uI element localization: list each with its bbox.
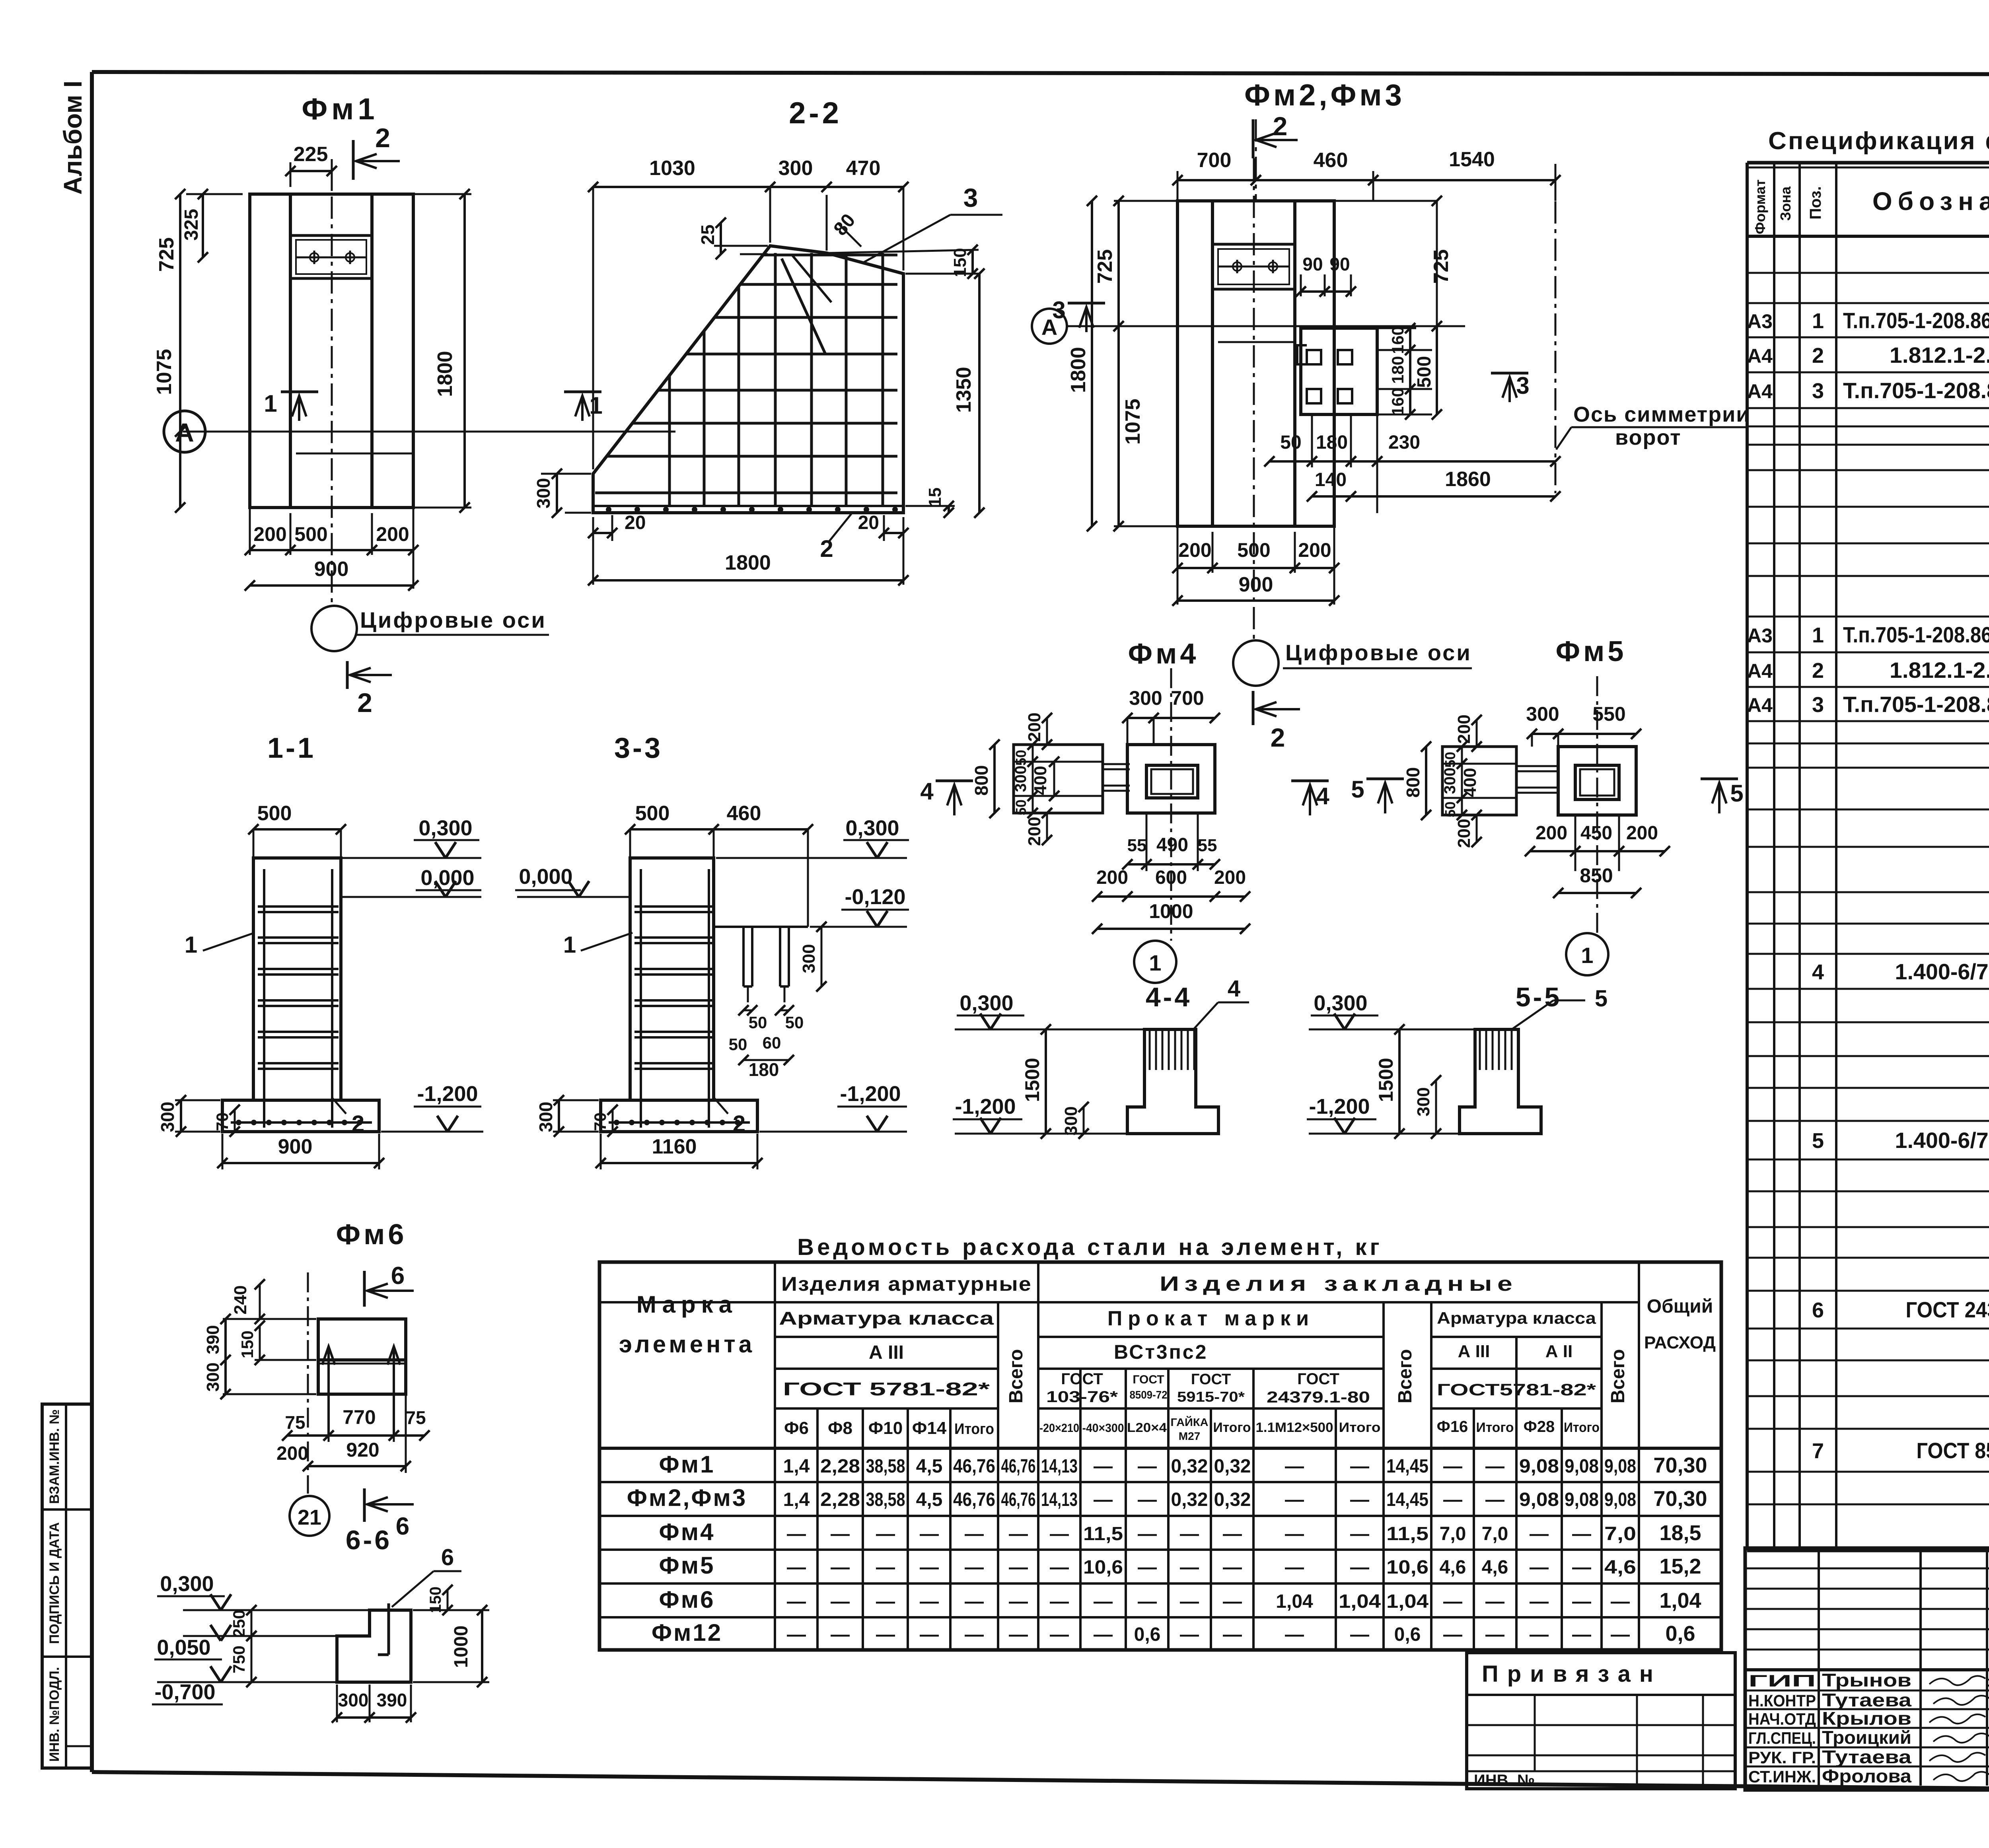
- svg-text:—: —: [1611, 1591, 1630, 1612]
- svg-text:—: —: [920, 1523, 939, 1545]
- svg-text:ГОСТ: ГОСТ: [1061, 1370, 1103, 1388]
- svg-text:ворот: ворот: [1615, 426, 1682, 449]
- svg-text:300: 300: [157, 1102, 178, 1132]
- svg-text:ИНВ. №: ИНВ. №: [1474, 1772, 1535, 1789]
- svg-text:—: —: [1138, 1489, 1157, 1510]
- svg-text:ПОДПИСЬ И ДАТА: ПОДПИСЬ И ДАТА: [47, 1522, 62, 1644]
- svg-text:—: —: [787, 1557, 806, 1578]
- svg-text:Н.КОНТР: Н.КОНТР: [1748, 1691, 1816, 1710]
- svg-text:0,32: 0,32: [1171, 1489, 1208, 1510]
- svg-text:300: 300: [535, 1102, 556, 1132]
- svg-text:9,08: 9,08: [1565, 1489, 1599, 1510]
- svg-text:—: —: [1443, 1624, 1462, 1645]
- svg-text:11,5: 11,5: [1386, 1523, 1428, 1545]
- svg-text:Арматура класса: Арматура класса: [1437, 1309, 1596, 1327]
- svg-text:46,76: 46,76: [953, 1489, 995, 1510]
- svg-text:200: 200: [1178, 539, 1211, 561]
- svg-text:9,08: 9,08: [1519, 1489, 1559, 1510]
- svg-text:Всего: Всего: [1006, 1349, 1027, 1404]
- svg-text:15: 15: [925, 488, 945, 507]
- svg-text:75: 75: [285, 1412, 305, 1433]
- svg-text:—: —: [1611, 1624, 1630, 1645]
- svg-text:180: 180: [749, 1059, 779, 1080]
- svg-text:СТ.ИНЖ.: СТ.ИНЖ.: [1748, 1767, 1816, 1786]
- svg-text:300: 300: [778, 157, 813, 180]
- svg-text:15,2: 15,2: [1659, 1554, 1701, 1578]
- svg-text:300: 300: [1526, 703, 1559, 725]
- svg-text:50: 50: [729, 1035, 747, 1054]
- svg-text:60: 60: [763, 1033, 781, 1052]
- svg-text:325: 325: [181, 209, 202, 241]
- svg-text:725: 725: [1094, 249, 1117, 284]
- svg-text:25: 25: [697, 224, 718, 245]
- svg-text:4,6: 4,6: [1440, 1557, 1466, 1578]
- svg-text:450: 450: [1580, 823, 1612, 844]
- svg-text:50: 50: [1013, 800, 1029, 815]
- svg-text:4: 4: [1228, 976, 1240, 1002]
- svg-text:—: —: [831, 1591, 850, 1612]
- svg-text:—: —: [965, 1523, 984, 1545]
- svg-text:Итого: Итого: [954, 1421, 994, 1438]
- svg-text:1: 1: [1149, 950, 1161, 975]
- svg-text:3.Х.86: 3.Х.86: [1987, 1675, 1989, 1690]
- svg-text:—: —: [1180, 1523, 1199, 1545]
- svg-text:160: 160: [1388, 388, 1407, 416]
- svg-text:ВЗАМ.ИНВ. №: ВЗАМ.ИНВ. №: [47, 1409, 62, 1504]
- svg-text:0,050: 0,050: [157, 1636, 210, 1659]
- svg-text:—: —: [1223, 1624, 1242, 1645]
- svg-text:—: —: [1138, 1557, 1157, 1578]
- svg-text:Изделия арматурные: Изделия арматурные: [781, 1273, 1032, 1295]
- svg-text:1.400-6/76, вып.1: 1.400-6/76, вып.1: [1895, 1128, 1989, 1153]
- svg-text:2: 2: [357, 688, 372, 718]
- svg-text:1350: 1350: [952, 367, 975, 413]
- svg-text:Крылов: Крылов: [1822, 1708, 1911, 1729]
- svg-text:6: 6: [396, 1513, 409, 1540]
- svg-text:2: 2: [1812, 659, 1824, 683]
- svg-text:46,76: 46,76: [1001, 1489, 1036, 1510]
- svg-text:Ведомость расхода стали на эле: Ведомость расхода стали на элемент, кг: [797, 1234, 1382, 1260]
- svg-text:—: —: [1572, 1624, 1591, 1645]
- svg-text:Т.п.705-1-208.86 КЖИ.01.00.СБ: Т.п.705-1-208.86 КЖИ.01.00.СБ: [1843, 308, 1989, 333]
- svg-text:—: —: [1485, 1591, 1504, 1612]
- svg-text:1,04: 1,04: [1659, 1589, 1701, 1613]
- svg-text:А4: А4: [1747, 345, 1773, 367]
- svg-text:2-2: 2-2: [789, 96, 842, 130]
- svg-text:Фм6: Фм6: [336, 1219, 407, 1251]
- svg-text:460: 460: [1314, 149, 1348, 172]
- svg-text:А3: А3: [1747, 310, 1773, 333]
- svg-text:46,76: 46,76: [1001, 1456, 1036, 1477]
- svg-text:1-1: 1-1: [267, 732, 316, 764]
- svg-text:—: —: [1223, 1591, 1242, 1612]
- svg-text:Тутаева: Тутаева: [1822, 1690, 1912, 1710]
- svg-text:0,300: 0,300: [418, 816, 472, 840]
- svg-text:-20×210: -20×210: [1039, 1422, 1079, 1435]
- svg-text:200: 200: [1025, 712, 1044, 741]
- svg-text:1,4: 1,4: [783, 1489, 810, 1510]
- svg-text:230: 230: [1388, 432, 1420, 453]
- svg-text:1.812.1-2.1-120-08: 1.812.1-2.1-120-08: [1890, 657, 1989, 683]
- svg-text:А4: А4: [1747, 660, 1773, 682]
- svg-text:103-76*: 103-76*: [1046, 1388, 1118, 1406]
- svg-text:600: 600: [1155, 867, 1187, 888]
- svg-text:770: 770: [343, 1406, 376, 1428]
- svg-text:46,76: 46,76: [953, 1456, 995, 1477]
- svg-text:—: —: [1009, 1624, 1028, 1645]
- svg-text:4: 4: [1812, 960, 1824, 984]
- svg-text:180: 180: [1388, 356, 1407, 384]
- svg-text:Цифровые оси: Цифровые оси: [360, 607, 547, 632]
- svg-text:24379.1-80: 24379.1-80: [1267, 1389, 1370, 1406]
- svg-text:3: 3: [1516, 372, 1529, 399]
- svg-text:390: 390: [377, 1690, 407, 1710]
- svg-text:2: 2: [820, 535, 833, 562]
- svg-text:300: 300: [1012, 766, 1030, 792]
- svg-text:5: 5: [1351, 776, 1364, 803]
- svg-text:7,0: 7,0: [1482, 1523, 1508, 1545]
- svg-text:Итого: Итого: [1339, 1420, 1381, 1435]
- svg-text:90: 90: [1329, 254, 1350, 274]
- svg-text:11,5: 11,5: [1083, 1523, 1123, 1545]
- svg-text:700: 700: [1171, 687, 1204, 709]
- svg-text:—: —: [1572, 1557, 1591, 1578]
- svg-text:-1,200: -1,200: [417, 1082, 478, 1106]
- svg-text:5-5: 5-5: [1516, 982, 1562, 1012]
- svg-text:2: 2: [1812, 344, 1824, 368]
- svg-text:1: 1: [563, 932, 576, 958]
- svg-text:Ф10: Ф10: [868, 1418, 903, 1438]
- svg-text:—: —: [1350, 1489, 1369, 1510]
- svg-text:ГОСТ: ГОСТ: [1297, 1370, 1339, 1388]
- svg-text:1800: 1800: [725, 551, 771, 574]
- svg-text:7,0: 7,0: [1440, 1523, 1466, 1545]
- svg-text:НАЧ.ОТД: НАЧ.ОТД: [1748, 1710, 1816, 1728]
- svg-text:Т.п.705-1-208.86 КЖИ.01.00.: Т.п.705-1-208.86 КЖИ.01.00.СБ: [1843, 622, 1989, 647]
- svg-text:1000: 1000: [1149, 900, 1193, 922]
- svg-text:-1,200: -1,200: [955, 1095, 1016, 1119]
- svg-text:2: 2: [375, 123, 390, 153]
- svg-text:300: 300: [1061, 1106, 1081, 1135]
- svg-text:2,28: 2,28: [820, 1456, 860, 1477]
- svg-text:L20×4: L20×4: [1127, 1420, 1167, 1435]
- svg-text:2: 2: [733, 1111, 745, 1137]
- svg-text:А III: А III: [869, 1342, 904, 1363]
- svg-text:—: —: [876, 1624, 895, 1645]
- svg-text:75: 75: [405, 1407, 426, 1428]
- svg-text:Общий: Общий: [1647, 1296, 1713, 1317]
- svg-text:—: —: [1223, 1557, 1242, 1578]
- svg-text:240: 240: [231, 1285, 250, 1314]
- svg-text:5: 5: [1730, 780, 1743, 807]
- svg-text:—: —: [1180, 1557, 1199, 1578]
- svg-text:900: 900: [1239, 573, 1273, 596]
- svg-text:—: —: [965, 1624, 984, 1645]
- svg-text:1160: 1160: [652, 1135, 697, 1158]
- svg-text:Ф14: Ф14: [912, 1418, 947, 1438]
- svg-text:490: 490: [1156, 835, 1188, 856]
- svg-text:4,6: 4,6: [1482, 1557, 1508, 1578]
- svg-text:Спецификация фундаментов Фм1..: Спецификация фундаментов Фм1...Фм6, Фм12: [1768, 127, 1989, 155]
- svg-text:1: 1: [1812, 309, 1824, 333]
- svg-text:200: 200: [1025, 817, 1044, 846]
- svg-text:1075: 1075: [1121, 399, 1144, 445]
- svg-text:Формат: Формат: [1752, 179, 1768, 234]
- svg-text:0,32: 0,32: [1214, 1489, 1251, 1510]
- svg-text:—: —: [1443, 1591, 1462, 1612]
- svg-text:Ф28: Ф28: [1524, 1418, 1555, 1436]
- svg-text:—: —: [831, 1557, 850, 1578]
- svg-text:—: —: [1530, 1523, 1549, 1545]
- svg-text:РАСХОД: РАСХОД: [1644, 1333, 1716, 1352]
- svg-text:225: 225: [294, 143, 328, 166]
- svg-text:—: —: [920, 1624, 939, 1645]
- svg-text:160: 160: [1388, 326, 1407, 354]
- svg-text:6-6: 6-6: [346, 1525, 392, 1555]
- svg-text:—: —: [1530, 1624, 1549, 1645]
- svg-text:1: 1: [589, 392, 602, 419]
- svg-text:2: 2: [352, 1111, 364, 1137]
- svg-text:—: —: [1138, 1591, 1157, 1612]
- svg-text:А II: А II: [1545, 1342, 1573, 1361]
- svg-text:-0,700: -0,700: [154, 1680, 215, 1704]
- svg-text:ГОСТ 8509-72*: ГОСТ 8509-72*: [1917, 1438, 1989, 1463]
- svg-text:—: —: [1443, 1456, 1462, 1477]
- svg-text:400: 400: [1031, 766, 1050, 795]
- svg-text:ГЛ.СПЕЦ.: ГЛ.СПЕЦ.: [1748, 1729, 1816, 1747]
- svg-text:200: 200: [1454, 819, 1474, 848]
- svg-text:500: 500: [1414, 356, 1435, 388]
- svg-text:—: —: [1485, 1456, 1504, 1477]
- svg-text:элемента: элемента: [619, 1331, 755, 1358]
- svg-text:460: 460: [727, 802, 761, 825]
- svg-text:500: 500: [635, 802, 670, 825]
- svg-text:—: —: [1094, 1591, 1113, 1612]
- svg-text:0,6: 0,6: [1394, 1624, 1421, 1645]
- svg-text:—: —: [1009, 1591, 1028, 1612]
- svg-text:5: 5: [1812, 1129, 1824, 1153]
- svg-text:Фм1: Фм1: [659, 1451, 715, 1478]
- svg-text:50: 50: [1442, 752, 1458, 768]
- svg-text:—: —: [1223, 1523, 1242, 1545]
- svg-text:—: —: [1350, 1456, 1369, 1477]
- svg-text:300: 300: [1414, 1087, 1433, 1116]
- svg-text:4: 4: [1316, 783, 1329, 809]
- svg-text:6: 6: [441, 1545, 454, 1570]
- svg-text:20: 20: [858, 512, 879, 533]
- svg-text:18,5: 18,5: [1659, 1521, 1701, 1545]
- svg-text:-0,120: -0,120: [845, 885, 905, 909]
- svg-text:Альбом I: Альбом I: [58, 81, 87, 195]
- svg-text:4,6: 4,6: [1604, 1557, 1636, 1578]
- svg-text:А4: А4: [1747, 380, 1773, 403]
- svg-text:500: 500: [294, 523, 327, 545]
- svg-text:Т.п.705-1-208.86 КЖИ-03.00: Т.п.705-1-208.86 КЖИ-03.00: [1843, 692, 1989, 717]
- svg-text:ИНВ. №ПОДЛ.: ИНВ. №ПОДЛ.: [47, 1667, 62, 1762]
- svg-text:0,300: 0,300: [845, 816, 899, 840]
- svg-text:0,32: 0,32: [1171, 1456, 1208, 1477]
- svg-text:—: —: [965, 1591, 984, 1612]
- svg-text:Поз.: Поз.: [1807, 186, 1824, 220]
- svg-text:300: 300: [1441, 768, 1459, 794]
- svg-text:А3: А3: [1747, 624, 1773, 647]
- svg-text:1,04: 1,04: [1386, 1591, 1428, 1612]
- svg-text:Прокат марки: Прокат марки: [1107, 1307, 1314, 1330]
- svg-text:Фм5: Фм5: [1556, 636, 1627, 667]
- svg-text:Итого: Итого: [1476, 1420, 1514, 1435]
- svg-text:1000: 1000: [451, 1626, 472, 1668]
- svg-text:—: —: [1180, 1591, 1199, 1612]
- svg-text:Всего: Всего: [1608, 1349, 1629, 1404]
- svg-text:Фм4: Фм4: [1128, 638, 1199, 670]
- svg-text:14,45: 14,45: [1386, 1489, 1428, 1510]
- svg-text:—: —: [876, 1591, 895, 1612]
- svg-text:-1,200: -1,200: [840, 1082, 901, 1106]
- svg-text:Зона: Зона: [1777, 186, 1794, 221]
- svg-text:70,30: 70,30: [1653, 1453, 1707, 1477]
- svg-text:Ф8: Ф8: [828, 1418, 852, 1438]
- svg-text:1800: 1800: [1067, 347, 1090, 393]
- svg-text:Фм5: Фм5: [659, 1552, 715, 1579]
- svg-text:Марка: Марка: [636, 1291, 738, 1318]
- svg-text:1500: 1500: [1375, 1058, 1397, 1102]
- svg-text:1: 1: [1581, 943, 1593, 968]
- svg-text:500: 500: [1237, 539, 1270, 561]
- svg-text:50: 50: [785, 1013, 804, 1032]
- svg-text:Ось симметрии: Ось симметрии: [1573, 403, 1750, 426]
- svg-text:470: 470: [846, 157, 881, 180]
- svg-text:Фм1: Фм1: [302, 92, 378, 126]
- svg-text:14,45: 14,45: [1386, 1456, 1428, 1477]
- svg-text:725: 725: [1430, 249, 1453, 284]
- svg-text:—: —: [1009, 1557, 1028, 1578]
- svg-text:—: —: [831, 1624, 850, 1645]
- svg-text:Обозначение: Обозначение: [1872, 187, 1989, 216]
- svg-text:Всего: Всего: [1395, 1349, 1416, 1404]
- svg-text:4: 4: [920, 778, 934, 805]
- svg-text:50: 50: [1013, 750, 1029, 766]
- svg-text:50: 50: [749, 1013, 767, 1032]
- svg-text:—: —: [1050, 1591, 1069, 1612]
- svg-text:-1,200: -1,200: [1309, 1095, 1370, 1119]
- svg-text:50: 50: [1442, 801, 1458, 817]
- svg-text:—: —: [1285, 1456, 1304, 1477]
- svg-text:1075: 1075: [153, 349, 176, 395]
- svg-text:0,300: 0,300: [1314, 991, 1367, 1015]
- svg-text:9,08: 9,08: [1565, 1456, 1599, 1477]
- svg-text:Фм6: Фм6: [659, 1586, 715, 1613]
- svg-text:ВСт3пс2: ВСт3пс2: [1114, 1341, 1208, 1363]
- svg-text:3: 3: [1812, 379, 1824, 403]
- svg-text:—: —: [1138, 1523, 1157, 1545]
- svg-text:ГОСТ 24379.1-80: ГОСТ 24379.1-80: [1906, 1297, 1989, 1322]
- svg-text:70: 70: [591, 1113, 609, 1131]
- svg-text:—: —: [831, 1523, 850, 1545]
- svg-text:Фролова: Фролова: [1822, 1766, 1911, 1786]
- svg-text:8509-72: 8509-72: [1130, 1389, 1168, 1401]
- svg-text:ГАЙКА: ГАЙКА: [1171, 1416, 1209, 1428]
- svg-text:ГОСТ: ГОСТ: [1133, 1373, 1164, 1386]
- svg-text:0,300: 0,300: [160, 1572, 214, 1596]
- svg-text:Фм4: Фм4: [659, 1519, 715, 1545]
- svg-text:800: 800: [971, 765, 992, 796]
- svg-text:0,6: 0,6: [1665, 1622, 1695, 1646]
- svg-text:70,30: 70,30: [1653, 1487, 1707, 1511]
- svg-text:ГИП: ГИП: [1748, 1671, 1816, 1690]
- svg-text:А III: А III: [1458, 1342, 1490, 1361]
- svg-text:500: 500: [257, 802, 292, 825]
- svg-text:1.400-6/76, вып.1: 1.400-6/76, вып.1: [1895, 959, 1989, 984]
- svg-text:1860: 1860: [1445, 468, 1491, 491]
- svg-text:Привязан: Привязан: [1482, 1661, 1662, 1687]
- svg-text:150: 150: [238, 1331, 257, 1358]
- svg-text:—: —: [1350, 1523, 1369, 1545]
- svg-text:180: 180: [1316, 432, 1348, 453]
- svg-text:6: 6: [1812, 1298, 1824, 1322]
- svg-text:920: 920: [346, 1439, 379, 1461]
- svg-text:0,300: 0,300: [959, 991, 1013, 1015]
- svg-text:—: —: [1050, 1523, 1069, 1545]
- svg-text:1.812.1-2.1-120-08: 1.812.1-2.1-120-08: [1890, 342, 1989, 368]
- svg-text:ГОСТ5781-82*: ГОСТ5781-82*: [1437, 1380, 1596, 1399]
- svg-text:—: —: [1094, 1624, 1113, 1645]
- svg-text:750: 750: [230, 1646, 248, 1673]
- svg-text:Тутаева: Тутаева: [1822, 1747, 1912, 1767]
- svg-text:ГОСТ 5781-82*: ГОСТ 5781-82*: [783, 1379, 990, 1399]
- svg-text:А4: А4: [1747, 694, 1773, 716]
- svg-text:90: 90: [1302, 254, 1323, 274]
- svg-text:200: 200: [1096, 867, 1128, 888]
- svg-text:150: 150: [950, 248, 970, 277]
- svg-text:4-4: 4-4: [1146, 982, 1192, 1012]
- svg-text:38,58: 38,58: [866, 1489, 905, 1510]
- svg-text:—: —: [1530, 1591, 1549, 1612]
- svg-text:400: 400: [1460, 768, 1480, 797]
- svg-text:200: 200: [1536, 823, 1567, 844]
- svg-text:300: 300: [799, 944, 819, 973]
- svg-text:1,04: 1,04: [1276, 1591, 1313, 1612]
- svg-text:900: 900: [278, 1135, 313, 1158]
- svg-text:725: 725: [155, 237, 178, 272]
- svg-text:—: —: [1285, 1489, 1304, 1510]
- svg-text:140: 140: [1315, 469, 1347, 490]
- svg-text:70: 70: [213, 1113, 232, 1131]
- svg-text:Ф16: Ф16: [1437, 1418, 1468, 1436]
- svg-text:7: 7: [1812, 1439, 1824, 1463]
- svg-text:Фм12: Фм12: [652, 1619, 722, 1646]
- svg-text:1,4: 1,4: [783, 1456, 810, 1477]
- svg-text:—: —: [1180, 1624, 1199, 1645]
- svg-text:—: —: [787, 1624, 806, 1645]
- svg-text:5: 5: [1595, 986, 1608, 1012]
- svg-text:—: —: [787, 1591, 806, 1612]
- svg-text:—: —: [1485, 1624, 1504, 1645]
- svg-text:Троицкий: Троицкий: [1822, 1727, 1911, 1748]
- svg-text:10,6: 10,6: [1083, 1557, 1123, 1578]
- svg-text:20: 20: [625, 512, 646, 533]
- svg-text:0,000: 0,000: [519, 865, 572, 889]
- svg-text:—: —: [787, 1523, 806, 1545]
- svg-text:—: —: [1138, 1456, 1157, 1477]
- svg-text:—: —: [1285, 1624, 1304, 1645]
- svg-text:200: 200: [276, 1443, 308, 1464]
- svg-text:3-3: 3-3: [614, 732, 663, 764]
- svg-text:200: 200: [1454, 714, 1474, 743]
- svg-text:38,58: 38,58: [866, 1456, 905, 1477]
- svg-text:200: 200: [1298, 539, 1331, 561]
- svg-text:Итого: Итого: [1564, 1420, 1600, 1435]
- svg-text:300: 300: [533, 478, 554, 509]
